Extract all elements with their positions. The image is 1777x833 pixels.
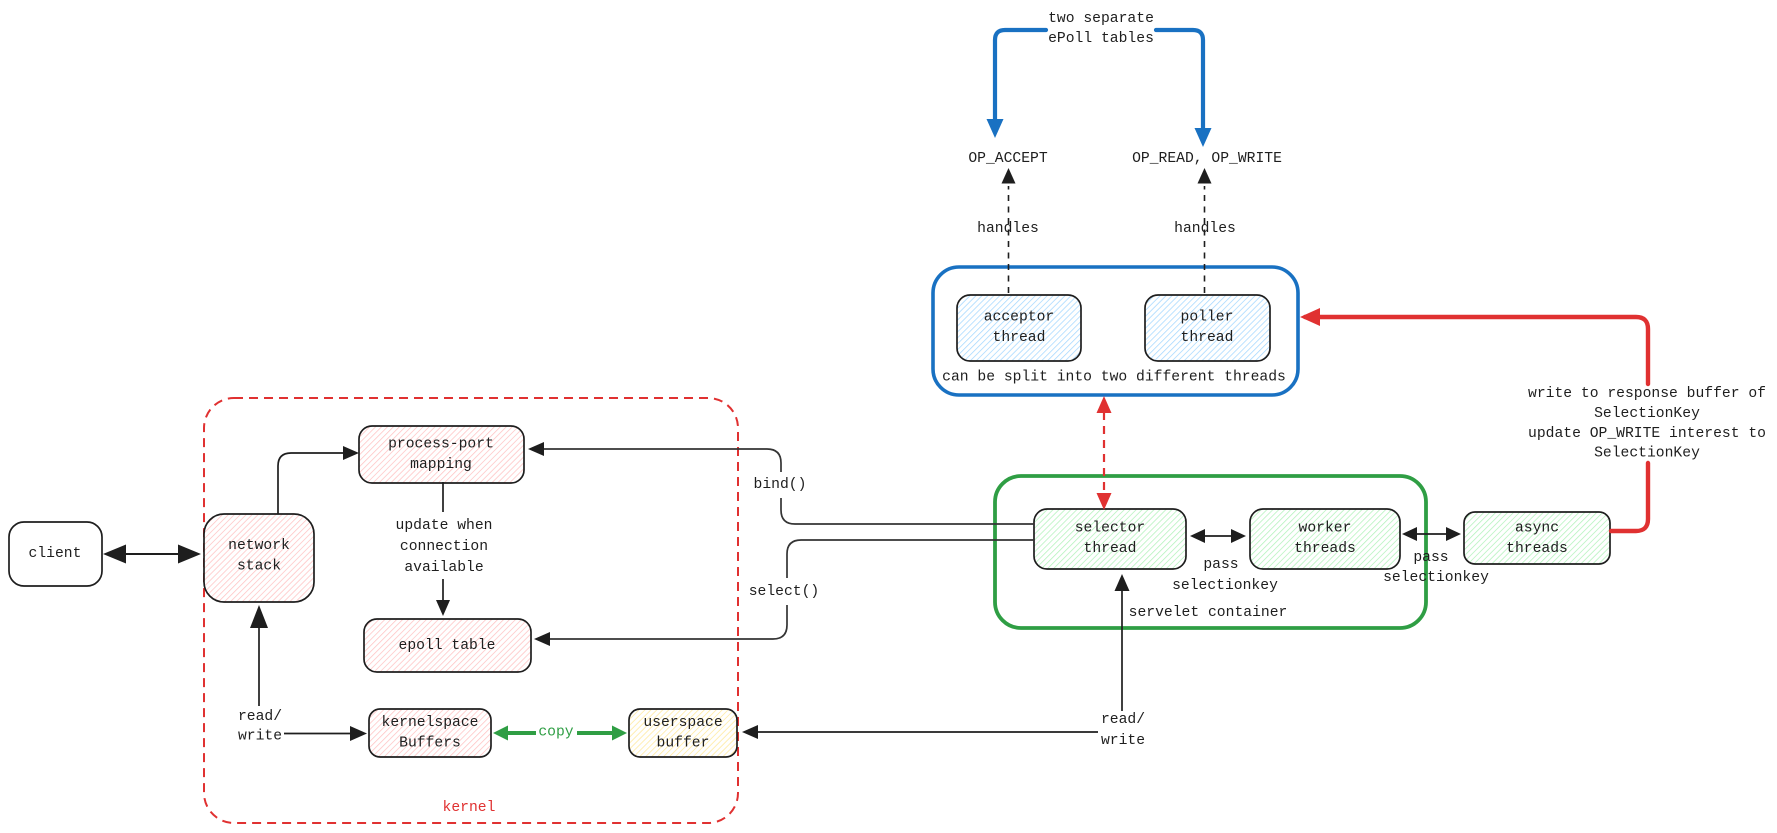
svg-text:ePoll tables: ePoll tables [1048, 31, 1154, 47]
svg-text:kernelspace: kernelspace [382, 715, 479, 731]
svg-text:selectionkey: selectionkey [1172, 578, 1278, 594]
svg-text:network: network [228, 538, 290, 554]
svg-text:selectionkey: selectionkey [1383, 570, 1489, 586]
svg-text:read/: read/ [1101, 712, 1145, 728]
svg-text:update OP_WRITE interest to: update OP_WRITE interest to [1528, 426, 1766, 442]
svg-text:Buffers: Buffers [399, 736, 461, 752]
svg-text:stack: stack [237, 559, 281, 575]
svg-text:bind(): bind() [754, 477, 807, 493]
svg-text:selector: selector [1075, 521, 1146, 537]
svg-text:threads: threads [1294, 541, 1356, 557]
svg-text:thread: thread [1181, 330, 1234, 346]
svg-text:available: available [404, 560, 483, 576]
svg-text:SelectionKey: SelectionKey [1594, 446, 1700, 462]
svg-text:write to response buffer of: write to response buffer of [1528, 386, 1766, 402]
svg-text:process-port: process-port [388, 437, 494, 453]
svg-text:pass: pass [1203, 557, 1238, 573]
svg-text:SelectionKey: SelectionKey [1594, 406, 1700, 422]
svg-text:acceptor: acceptor [984, 310, 1055, 326]
svg-text:select(): select() [749, 584, 820, 600]
svg-text:servelet container: servelet container [1129, 605, 1288, 621]
svg-text:client: client [29, 546, 82, 562]
svg-text:OP_READ, OP_WRITE: OP_READ, OP_WRITE [1132, 151, 1282, 167]
svg-text:threads: threads [1506, 541, 1568, 557]
svg-text:update when: update when [396, 518, 493, 534]
svg-text:connection: connection [400, 539, 488, 555]
svg-text:write: write [1101, 733, 1145, 749]
svg-text:poller: poller [1181, 310, 1234, 326]
svg-text:two separate: two separate [1048, 11, 1154, 27]
svg-text:copy: copy [538, 725, 573, 741]
svg-text:can be split into two differen: can be split into two different threads [942, 370, 1286, 386]
svg-text:write: write [238, 729, 282, 745]
svg-text:worker: worker [1299, 521, 1352, 537]
svg-text:thread: thread [1084, 541, 1137, 557]
svg-text:pass: pass [1413, 550, 1448, 566]
svg-text:kernel: kernel [443, 800, 496, 816]
svg-text:read/: read/ [238, 709, 282, 725]
svg-text:thread: thread [993, 330, 1046, 346]
svg-text:buffer: buffer [657, 736, 710, 752]
svg-text:OP_ACCEPT: OP_ACCEPT [968, 151, 1048, 167]
svg-text:epoll table: epoll table [399, 638, 496, 654]
svg-text:userspace: userspace [643, 715, 722, 731]
svg-text:mapping: mapping [410, 457, 472, 473]
svg-text:async: async [1515, 521, 1559, 537]
